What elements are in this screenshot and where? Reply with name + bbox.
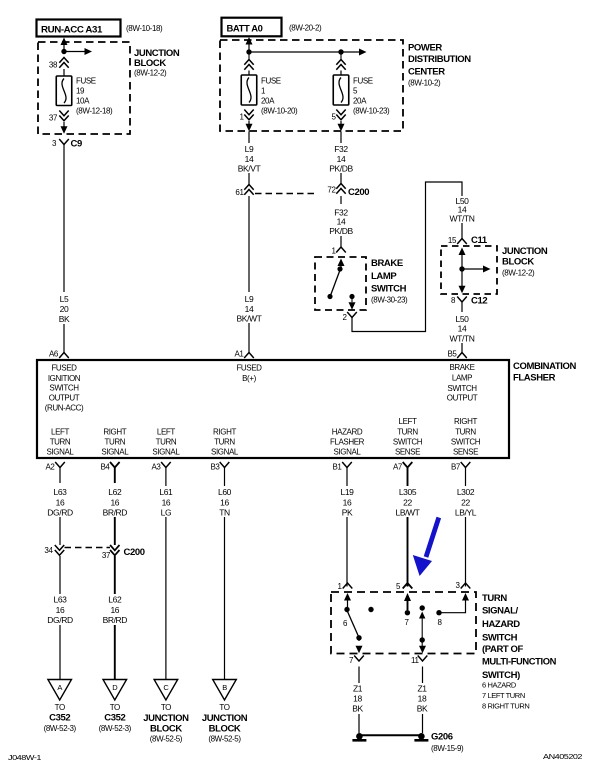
svg-text:L9: L9: [245, 144, 254, 154]
svg-text:B1: B1: [333, 463, 343, 472]
svg-text:19: 19: [76, 87, 85, 96]
wire L5 lower segment: [63, 324, 65, 353]
ground G206 left symbol: [352, 733, 366, 740]
flasher pin A7 text: [393, 417, 423, 457]
wire F32 from PDC: [340, 131, 342, 143]
pin 5 label PDC: [331, 113, 336, 122]
switch pole arrow: [419, 612, 425, 641]
ground G206 right symbol: [414, 733, 428, 740]
arrow down to pin 2: [349, 298, 356, 310]
svg-text:16: 16: [220, 498, 229, 508]
svg-text:L63: L63: [54, 487, 68, 497]
pin 1 label switch: [337, 582, 342, 591]
wire L9 lower segment: [248, 196, 250, 292]
svg-text:(8W-10-23): (8W-10-23): [353, 107, 390, 116]
connector C9 fork: [59, 139, 82, 150]
svg-text:(8W-30-23): (8W-30-23): [371, 296, 408, 305]
svg-text:TO: TO: [110, 703, 120, 712]
pin 5 fork switch: [403, 583, 413, 589]
svg-text:22: 22: [403, 498, 412, 508]
svg-text:LB/WT: LB/WT: [396, 508, 420, 518]
switch lever end dot: [356, 635, 361, 640]
reference (8W-20-2): [289, 24, 322, 33]
svg-text:LEFT: LEFT: [51, 428, 69, 437]
svg-text:SIGNAL: SIGNAL: [334, 448, 362, 457]
flasher pin B4 text: [101, 428, 129, 457]
connector label RUN-ACC A31 box: [37, 20, 121, 37]
svg-text:RIGHT: RIGHT: [103, 428, 126, 437]
flasher pin A1 text: [236, 364, 262, 384]
fuse F1 (Fuse 1 20A): [241, 71, 257, 106]
svg-text:A6: A6: [49, 350, 59, 359]
svg-text:RUN-ACC A31: RUN-ACC A31: [41, 25, 103, 36]
svg-text:7 LEFT TURN: 7 LEFT TURN: [482, 691, 525, 700]
wire brake out to junction riser: [352, 182, 462, 332]
node PDC bus right dot: [338, 49, 343, 54]
connector C200 dashed link upper: [255, 193, 318, 195]
destination C352 left: [44, 703, 77, 733]
node junction dot A31 feed: [61, 49, 66, 54]
fuse 19 labels: [76, 77, 113, 116]
pin B7 label: [451, 463, 461, 472]
brake switch lever: [331, 270, 341, 296]
svg-text:PK: PK: [342, 508, 353, 518]
wire L19: [346, 483, 348, 587]
svg-text:18: 18: [418, 694, 427, 704]
arrow down out of junction block: [61, 126, 68, 134]
pin A2 fork: [55, 462, 65, 483]
svg-text:SIGNAL: SIGNAL: [211, 448, 239, 457]
wire L9 from PDC: [248, 131, 250, 143]
svg-text:11: 11: [411, 656, 419, 665]
svg-text:(8W-12-18): (8W-12-18): [76, 107, 113, 116]
svg-text:L305: L305: [399, 487, 417, 497]
ground G206 label: [431, 732, 464, 754]
svg-text:SENSE: SENSE: [395, 448, 420, 457]
svg-text:L62: L62: [108, 487, 122, 497]
connector C200 upper label: [348, 187, 369, 198]
pin 3 fork switch: [461, 583, 471, 589]
wire L5 upper segment: [63, 145, 65, 293]
svg-text:B: B: [222, 683, 227, 692]
turn signal hazard switch dashed box: [331, 592, 476, 654]
svg-text:38: 38: [49, 61, 58, 70]
blue annotation arrow: [413, 518, 439, 577]
connector chevron fuse5 top: [336, 54, 345, 70]
svg-text:(8W-15-9): (8W-15-9): [431, 744, 464, 753]
svg-text:Z1: Z1: [417, 684, 427, 694]
svg-text:20: 20: [60, 304, 69, 314]
pin 3 label switch: [455, 581, 460, 590]
wire L60: [224, 483, 226, 680]
svg-text:34: 34: [44, 546, 53, 555]
wire F32 below C200: [340, 196, 342, 204]
flasher pin B7 text: [451, 417, 481, 457]
svg-text:SWITCH: SWITCH: [49, 384, 79, 393]
svg-text:16: 16: [162, 498, 171, 508]
wire pin 11 to ground: [417, 667, 428, 734]
wire lever to pin7: [356, 638, 363, 653]
svg-text:16: 16: [110, 498, 119, 508]
svg-text:15: 15: [448, 236, 457, 245]
svg-text:L62: L62: [108, 595, 122, 605]
svg-text:SENSE: SENSE: [453, 448, 478, 457]
svg-text:TURN: TURN: [156, 438, 177, 447]
svg-text:(8W-20-2): (8W-20-2): [289, 24, 322, 33]
arrow up into C11 block: [459, 248, 466, 288]
svg-text:SIGNAL/: SIGNAL/: [482, 606, 518, 617]
wire L62 lower: [114, 556, 116, 680]
svg-text:16: 16: [56, 498, 65, 508]
svg-text:BRAKE: BRAKE: [449, 363, 474, 372]
switch pole lower dot: [420, 637, 425, 642]
pin 1 label PDC: [239, 113, 244, 122]
switch contact dot 7: [405, 610, 410, 615]
wire L63 upper: [59, 517, 61, 545]
svg-text:SWITCH): SWITCH): [482, 670, 520, 681]
wire L9 to A1: [248, 323, 250, 353]
svg-text:61: 61: [235, 188, 244, 197]
svg-text:8 RIGHT TURN: 8 RIGHT TURN: [482, 702, 529, 711]
svg-text:WT/TN: WT/TN: [450, 334, 475, 344]
junction block C11 dashed box: [441, 246, 497, 294]
pin 3 label: [52, 139, 57, 148]
arrow down out of PDC left: [246, 121, 253, 131]
svg-text:37: 37: [49, 114, 58, 123]
arrow down out of PDC right: [338, 121, 345, 131]
svg-text:HAZARD: HAZARD: [482, 619, 520, 630]
svg-text:TURN: TURN: [214, 438, 235, 447]
connector chevron pin 37: [59, 111, 68, 121]
svg-text:C352: C352: [49, 713, 70, 724]
svg-text:C200: C200: [348, 187, 369, 198]
PDC bus wire: [249, 51, 341, 53]
brake switch pivot dot: [337, 266, 342, 271]
svg-text:B7: B7: [451, 463, 461, 472]
pin A3 label: [152, 463, 162, 472]
flasher pin A3 text: [152, 428, 180, 457]
svg-text:C9: C9: [71, 139, 82, 150]
connector chevron 34 C200: [55, 545, 64, 555]
pin 1 fork switch: [343, 583, 353, 589]
wire L302: [465, 483, 467, 587]
pin 1 label brake switch: [331, 247, 336, 256]
svg-text:L61: L61: [159, 487, 173, 497]
switch spare contact dot: [368, 607, 373, 612]
svg-text:C11: C11: [471, 235, 488, 246]
flasher pin B3 text: [211, 428, 239, 457]
svg-text:C200: C200: [124, 547, 145, 558]
pin 5 label switch: [396, 582, 401, 591]
svg-text:TURN: TURN: [397, 428, 418, 437]
svg-text:(8W-10-2): (8W-10-2): [408, 79, 441, 88]
wire L305: [407, 483, 409, 587]
svg-text:BATT A0: BATT A0: [227, 24, 263, 35]
switch contact dot 8: [436, 610, 441, 615]
wire label L302 22 LB/YL: [450, 486, 481, 518]
svg-text:C12: C12: [471, 296, 487, 307]
svg-text:Z1: Z1: [353, 684, 363, 694]
wire label L19 16 PK: [334, 486, 360, 518]
switch contact dot 6: [344, 607, 349, 612]
wire L50 to B5: [461, 343, 463, 353]
svg-text:TO: TO: [161, 703, 171, 712]
fuse 1 labels: [261, 77, 298, 116]
svg-text:RIGHT: RIGHT: [213, 428, 236, 437]
pin 11 label switch: [411, 656, 419, 665]
pin B4 label: [101, 463, 111, 472]
svg-text:FUSE: FUSE: [76, 77, 96, 86]
svg-text:14: 14: [245, 154, 254, 164]
svg-text:SIGNAL: SIGNAL: [101, 448, 129, 457]
svg-text:TURN: TURN: [50, 438, 71, 447]
pin 72 label: [327, 186, 336, 195]
svg-text:14: 14: [337, 154, 346, 164]
svg-text:F32: F32: [334, 144, 348, 154]
pin 11 fork switch: [418, 656, 428, 662]
svg-text:FUSE: FUSE: [353, 77, 373, 86]
wire label F32 14 PK/DB upper: [329, 144, 353, 174]
wire pin 7 to ground: [352, 667, 363, 734]
svg-text:BR/RD: BR/RD: [103, 508, 128, 518]
svg-text:BRAKE: BRAKE: [371, 258, 403, 269]
wire L9 to C200: [248, 173, 250, 185]
arrow down out of C11 block: [459, 286, 466, 294]
svg-text:(8W-10-18): (8W-10-18): [126, 24, 163, 33]
svg-text:A7: A7: [393, 463, 403, 472]
switch contact 6 label: [343, 619, 348, 628]
svg-text:B4: B4: [101, 463, 111, 472]
svg-text:BLOCK: BLOCK: [134, 58, 166, 69]
svg-text:TURN: TURN: [455, 428, 476, 437]
connector chevron 37 C200: [110, 545, 119, 555]
brake switch contact dot pin2: [349, 294, 354, 299]
footer drawing number left: [8, 753, 41, 762]
switch contact 7 label: [404, 618, 409, 627]
pin 7 label switch: [349, 656, 354, 665]
flasher pin B5 text: [447, 363, 478, 403]
svg-text:SWITCH: SWITCH: [393, 438, 423, 447]
svg-text:LG: LG: [161, 508, 172, 518]
svg-text:B(+): B(+): [242, 374, 256, 383]
arrow right PDC bus: [341, 49, 367, 56]
svg-text:16: 16: [343, 498, 352, 508]
connector C200 dashed link lower: [65, 547, 111, 549]
svg-text:20A: 20A: [261, 97, 275, 106]
svg-text:DG/RD: DG/RD: [47, 615, 73, 625]
wire label L50 14 WT/TN upper: [450, 196, 475, 224]
fuse 5 labels: [353, 77, 390, 116]
switch pole upper dot: [420, 605, 425, 610]
wire label L63 16 DG/RD upper: [47, 487, 73, 518]
junction block label: [134, 48, 180, 78]
svg-text:A2: A2: [46, 463, 56, 472]
svg-text:J048W-1: J048W-1: [8, 753, 41, 762]
svg-text:14: 14: [245, 304, 254, 314]
svg-text:(8W-52-3): (8W-52-3): [99, 724, 132, 733]
connector triangle C: [154, 680, 178, 701]
svg-text:TURN: TURN: [104, 438, 125, 447]
arrow up into brake switch: [338, 259, 345, 269]
svg-text:MULTI-FUNCTION: MULTI-FUNCTION: [482, 657, 557, 668]
svg-text:(8W-12-2): (8W-12-2): [134, 69, 167, 78]
footer drawing number right: [543, 752, 582, 761]
pin 1 fork brake switch: [336, 247, 346, 253]
svg-text:L60: L60: [218, 487, 232, 497]
pin A7 fork: [403, 462, 413, 483]
arrow right bus stub: [64, 48, 92, 55]
svg-text:16: 16: [110, 605, 119, 615]
pin A3 fork: [161, 462, 171, 483]
ground link wire: [362, 734, 419, 736]
pin 34 label: [44, 546, 53, 555]
wire label L9 14 BK/VT: [238, 144, 261, 174]
wire label L50 14 WT/TN lower: [450, 314, 475, 344]
turn signal hazard switch label: [482, 593, 557, 681]
svg-text:POWER: POWER: [408, 43, 442, 54]
svg-text:LB/YL: LB/YL: [455, 508, 477, 518]
pin B3 label: [211, 463, 221, 472]
svg-text:18: 18: [353, 694, 362, 704]
svg-text:IGNITION: IGNITION: [48, 374, 81, 383]
svg-text:PK/DB: PK/DB: [329, 226, 353, 236]
junction block dashed box: [38, 42, 130, 134]
pin A2 label: [46, 463, 56, 472]
svg-text:TURN: TURN: [482, 593, 507, 604]
svg-text:FUSED: FUSED: [236, 364, 262, 373]
node PDC bus left dot: [246, 49, 251, 54]
svg-text:L19: L19: [341, 487, 355, 497]
svg-text:CENTER: CENTER: [408, 67, 445, 78]
wire label F32 14 PK/DB lower: [329, 208, 353, 237]
wire to fuse 19: [63, 69, 65, 76]
svg-text:6 HAZARD: 6 HAZARD: [482, 681, 517, 690]
svg-text:BK/VT: BK/VT: [238, 164, 261, 174]
wire L62 upper: [114, 517, 116, 545]
svg-text:SIGNAL: SIGNAL: [152, 448, 180, 457]
pin 15 label: [448, 236, 457, 245]
wire label L60 16 TN: [211, 486, 238, 518]
svg-text:LEFT: LEFT: [157, 428, 175, 437]
connector triangle B: [213, 680, 237, 701]
combination flasher label: [513, 361, 577, 384]
svg-text:B3: B3: [211, 463, 221, 472]
svg-text:TO: TO: [219, 703, 229, 712]
svg-text:(8W-10-20): (8W-10-20): [261, 107, 298, 116]
svg-text:16: 16: [56, 605, 65, 615]
flasher pin A6 text: [45, 364, 84, 413]
brake lamp switch label: [371, 258, 408, 305]
pin 8 label C12: [451, 296, 456, 305]
svg-text:RIGHT: RIGHT: [454, 417, 477, 426]
svg-text:(8W-52-5): (8W-52-5): [208, 735, 241, 744]
pin B7 fork: [461, 462, 471, 483]
pin 37 label C200: [102, 551, 111, 560]
switch contact 8 label: [437, 618, 442, 627]
arrow up into BATT box: [246, 37, 253, 51]
pin B3 fork: [220, 462, 230, 483]
svg-text:(RUN-ACC): (RUN-ACC): [45, 404, 84, 413]
svg-text:OUTPUT: OUTPUT: [49, 394, 80, 403]
svg-text:BLOCK: BLOCK: [209, 724, 241, 735]
wire label L61 16 LG: [152, 486, 180, 518]
svg-text:SWITCH: SWITCH: [482, 633, 518, 644]
connector chevron 72 C200: [336, 184, 345, 194]
pin 2 fork: [347, 312, 357, 318]
svg-text:HAZARD: HAZARD: [332, 428, 363, 437]
svg-text:22: 22: [461, 498, 470, 508]
wire L61: [165, 483, 167, 680]
svg-text:20A: 20A: [353, 97, 367, 106]
svg-text:PK/DB: PK/DB: [329, 164, 353, 174]
brake switch lever end dot: [327, 294, 332, 299]
pin A1 fork: [244, 353, 254, 359]
pin 7 fork switch: [354, 656, 364, 662]
svg-text:B5: B5: [448, 350, 458, 359]
connector label BATT A0 box: [222, 18, 282, 37]
arrow up into RUN-ACC box: [61, 38, 68, 52]
svg-text:L63: L63: [54, 595, 68, 605]
svg-text:BK: BK: [417, 704, 428, 714]
pin B5 fork: [457, 353, 467, 359]
svg-text:TN: TN: [219, 508, 230, 518]
wire contact 8 to pin 3: [441, 593, 469, 613]
fuse F5 (Fuse 5 20A): [333, 71, 349, 106]
pin 37 label: [49, 114, 58, 123]
arrow up into switch pin 5: [404, 593, 411, 610]
power distribution center dashed box: [220, 40, 403, 131]
svg-text:DISTRIBUTION: DISTRIBUTION: [408, 54, 471, 65]
svg-text:14: 14: [458, 324, 467, 334]
svg-text:SWITCH: SWITCH: [447, 384, 477, 393]
pin 38 label: [49, 61, 58, 70]
svg-text:BLOCK: BLOCK: [502, 257, 534, 268]
svg-text:JUNCTION: JUNCTION: [143, 713, 189, 724]
switch legend: [482, 681, 529, 711]
svg-text:COMBINATION: COMBINATION: [513, 361, 577, 372]
svg-text:L5: L5: [60, 294, 69, 304]
pin B5 label: [448, 350, 458, 359]
flasher pin A2 text: [47, 428, 75, 457]
arrow right C11 block: [462, 266, 491, 273]
svg-text:BR/RD: BR/RD: [103, 615, 128, 625]
connector chevron 61 C200: [244, 185, 253, 195]
svg-text:LEFT: LEFT: [399, 417, 417, 426]
fuse F19 (Fuse 19 10A): [56, 76, 72, 106]
pin B1 label: [333, 463, 343, 472]
pin B1 fork: [342, 462, 352, 483]
connector chevron pin 38: [59, 58, 68, 68]
pin A7 label: [393, 463, 403, 472]
svg-text:72: 72: [327, 186, 336, 195]
svg-text:BK: BK: [352, 704, 363, 714]
svg-text:SWITCH: SWITCH: [371, 284, 407, 295]
node C11 block dot: [459, 266, 464, 271]
wire label L62 16 BR/RD upper: [103, 487, 128, 518]
svg-text:WT/TN: WT/TN: [450, 214, 475, 224]
svg-text:A: A: [57, 683, 62, 692]
svg-text:L302: L302: [457, 487, 475, 497]
wire L63 lower: [59, 556, 61, 680]
wire to JB edge: [63, 122, 65, 127]
svg-text:DG/RD: DG/RD: [47, 508, 73, 518]
svg-text:BK/WT: BK/WT: [237, 314, 262, 324]
svg-text:TO: TO: [55, 703, 65, 712]
pin 61 label: [235, 188, 244, 197]
svg-text:BLOCK: BLOCK: [150, 724, 182, 735]
svg-text:LAMP: LAMP: [371, 271, 397, 282]
svg-text:L50: L50: [456, 314, 470, 324]
